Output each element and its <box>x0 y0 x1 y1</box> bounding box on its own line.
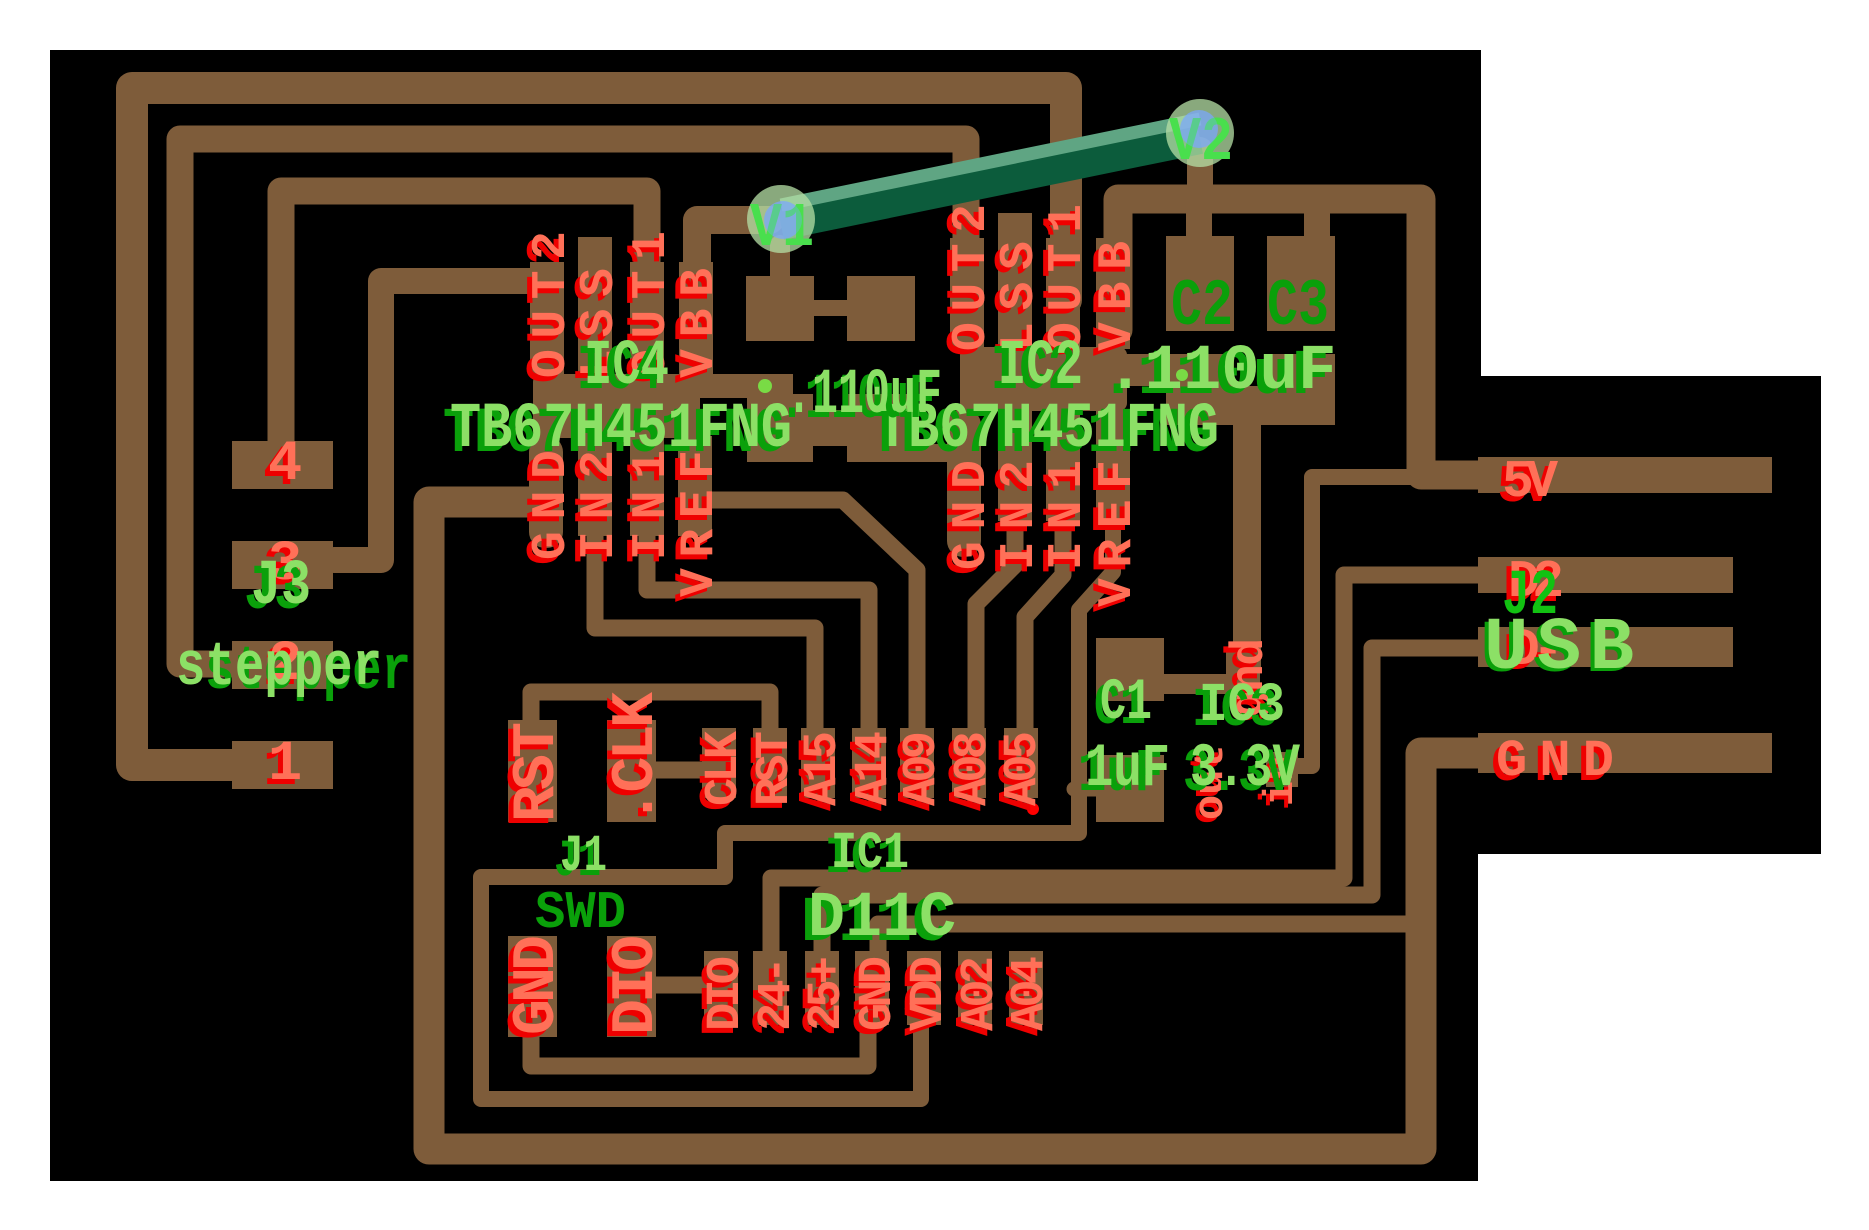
IC1 pad DIO <box>704 951 738 1025</box>
pad GND <box>1478 733 1772 773</box>
green origin dot IC4 <box>758 379 772 393</box>
svg-text:V1: V1 <box>750 193 814 264</box>
svg-text:RST: RST <box>504 722 572 822</box>
wire IC2 IN2 to IC1 A08 <box>976 520 1015 745</box>
connector J3 pad 1 <box>232 741 333 789</box>
via V2 <box>1166 99 1234 178</box>
svg-text:VBB: VBB <box>673 268 727 378</box>
wire V2 stub <box>1187 150 1213 199</box>
pin label IC2 LSS <box>988 246 1042 356</box>
IC2 strip to GND pad <box>900 444 960 462</box>
pad USB <box>1478 627 1733 667</box>
svg-text:4: 4 <box>268 433 302 497</box>
IC2 body <box>960 347 1127 411</box>
IC4 pad IN1 <box>630 436 664 536</box>
wire D2 pad to IC1 24- <box>771 575 1490 960</box>
IC2 link to C2 lower pad <box>1110 354 1168 386</box>
pin label IC1 25+ <box>796 961 849 1036</box>
connector J3 pad 3 <box>232 541 333 589</box>
pin label IC1 A14 <box>843 736 896 811</box>
label IC2 <box>991 331 1083 408</box>
svg-text:IC3: IC3 <box>1199 674 1285 737</box>
IC1 pad CLK <box>702 728 736 798</box>
pin label J1 RST <box>499 727 567 827</box>
svg-text:GND: GND <box>1496 732 1614 791</box>
label 1uF <box>1078 735 1170 809</box>
svg-text:1: 1 <box>268 733 302 797</box>
wire 3V3 net IC2 VREF to VDD <box>481 520 1113 1099</box>
pin label IC4 GND <box>520 455 574 565</box>
svg-text:SWD: SWD <box>535 883 626 943</box>
IC1 pad A14 <box>852 728 886 798</box>
pin label IC1 A05 <box>992 736 1045 811</box>
IC1 pad A09 <box>900 728 934 798</box>
capacitor C2 pad bottom <box>1166 354 1234 425</box>
pin label IC4 LSS <box>568 273 622 383</box>
connector J1 pad DIO <box>607 936 656 1037</box>
IC3 pin label in fragment <box>1253 760 1301 810</box>
svg-text:J1: J1 <box>560 827 607 886</box>
pin label IC1 A08 <box>942 736 995 811</box>
IC1 pad A05 <box>1004 728 1038 798</box>
wire USB pad to IC1 25+ <box>822 648 1490 960</box>
wire IC2 IN1 to IC1 A05 <box>1025 520 1063 745</box>
IC3 pin label out fragment <box>1183 748 1231 824</box>
J3 pad number 4 <box>263 433 302 502</box>
connector J1 pad CLK <box>607 720 656 822</box>
wire IC4 IN2 to IC1 A15 <box>595 520 815 745</box>
IC2 pad IN2 <box>998 409 1032 521</box>
svg-text:.CLK: .CLK <box>603 692 671 825</box>
capacitor C5 pad B <box>847 394 915 462</box>
pin label IC4 VBB <box>668 273 722 383</box>
pin label IC1 CLK <box>693 735 746 811</box>
svg-text:D11C: D11C <box>808 883 956 955</box>
pin label IC3 gnd <box>1219 643 1271 723</box>
svg-text:3.3V: 3.3V <box>1190 735 1300 804</box>
IC4 pad GND <box>529 436 563 548</box>
IC2 pad VREF <box>1096 409 1130 521</box>
capacitor C4 pad A <box>746 276 814 341</box>
IC1 pad 24- <box>753 951 787 1025</box>
wire C2 C3 lower pads to IC3 gnd <box>1233 420 1261 668</box>
IC4 pad OUT2 <box>530 262 564 376</box>
pin label IC4 OUT1 <box>620 236 674 383</box>
IC2 pad VBB <box>1096 238 1130 349</box>
wire GND main ring <box>429 502 1490 1149</box>
label TB67H451FNG IC4 <box>443 394 792 471</box>
IC1 pad 25+ <box>805 951 839 1025</box>
connector J3 pad 4 <box>232 441 333 489</box>
label J3 <box>244 551 311 628</box>
label 5V <box>1497 452 1558 517</box>
label J1 <box>554 827 607 891</box>
label D11C <box>801 883 956 960</box>
IC4 pad LSS <box>578 237 612 376</box>
wire J1 CLK link <box>650 762 719 779</box>
label TB67H451FNG IC2 <box>870 394 1219 471</box>
J3 pad number 2 <box>263 633 302 702</box>
svg-text:J3: J3 <box>251 551 311 623</box>
svg-text:GND: GND <box>504 935 572 1035</box>
via V1 <box>747 185 815 264</box>
svg-text:IC2: IC2 <box>998 331 1083 403</box>
pin label IC1 A02 <box>949 961 1002 1036</box>
label C1 <box>1094 671 1152 741</box>
wire V1 to C4 pad <box>770 245 790 285</box>
pin label IC1 A15 <box>792 736 845 811</box>
connector J3 pad 2 <box>232 641 333 689</box>
svg-text:.110uF: .110uF <box>786 360 942 432</box>
IC3 pad gnd <box>1226 650 1260 694</box>
svg-text:USB: USB <box>1484 607 1634 691</box>
IC1 pad A15 <box>801 728 835 798</box>
pin label IC1 DIO <box>695 961 748 1036</box>
pin label IC4 IN1 <box>620 455 674 565</box>
svg-text:V2: V2 <box>1169 107 1233 178</box>
wire J1 RST to IC1 RST <box>531 692 770 735</box>
capacitor C2 pad top <box>1166 236 1234 331</box>
pin label IC4 VREF <box>668 455 722 602</box>
label 3.3V <box>1183 735 1300 809</box>
svg-text:TB67H451FNG: TB67H451FNG <box>450 394 792 466</box>
capacitor C5 pad A <box>747 394 813 462</box>
svg-text:5V: 5V <box>1502 452 1558 512</box>
svg-text:A04: A04 <box>1004 956 1057 1031</box>
wire VBB rail V2 to 5V <box>1118 199 1490 475</box>
IC1 pad VDD <box>907 951 941 1025</box>
connector J1 pad GND <box>508 936 557 1037</box>
J3 pad number 3 <box>263 533 302 602</box>
svg-text:DIO: DIO <box>603 935 671 1035</box>
wire IC4 IN1 to IC1 A14 <box>647 520 869 745</box>
svg-text:C1: C1 <box>1100 671 1152 736</box>
pin label IC1 GND <box>847 961 900 1036</box>
airwire V1 to V2 <box>781 119 1200 225</box>
IC3 pad vin <box>1266 752 1298 787</box>
svg-text:IC1: IC1 <box>831 824 909 883</box>
label D- under USB <box>1503 620 1564 685</box>
IC4 link to C5 pad <box>698 374 793 398</box>
pin label J1 .CLK <box>598 697 666 830</box>
IC4 pad IN2 <box>578 436 612 536</box>
capacitor C3 pad top <box>1267 236 1335 331</box>
svg-text:1uF: 1uF <box>1085 735 1170 804</box>
pin label IC1 VDD <box>898 961 951 1036</box>
svg-text:A05: A05 <box>997 731 1050 806</box>
IC2 pad IN1 <box>1046 409 1080 521</box>
wire GND branch to IC1 GND <box>878 924 1421 960</box>
red dot near A05 <box>1027 803 1039 815</box>
pin label IC2 OUT1 <box>1036 209 1090 356</box>
pad D2 <box>1478 557 1733 593</box>
label USB <box>1480 607 1634 694</box>
C5 pads bridge <box>810 410 852 446</box>
IC1 pad RST <box>753 728 787 798</box>
svg-text:C3: C3 <box>1267 269 1329 344</box>
pin label IC2 VREF <box>1086 465 1140 612</box>
pin label J1 GND <box>499 940 567 1040</box>
wire T3 J3 pad4 to IC4 OUT1 <box>281 191 647 460</box>
svg-text:stepper: stepper <box>176 632 382 703</box>
capacitor C3 pad bottom <box>1267 354 1335 425</box>
pin label IC2 GND <box>940 465 994 575</box>
wire T2 J3 pad2 to IC2 OUT2 <box>180 139 966 664</box>
pin label IC1 RST <box>744 736 797 811</box>
wire C1 lower to 3V3 riser <box>1074 782 1100 797</box>
pin label J1 DIO <box>598 940 666 1040</box>
IC4 pad VBB <box>679 262 713 376</box>
pin label IC2 VBB <box>1086 246 1140 356</box>
wire T1 J3 pad1 to IC2 OUT1 <box>132 88 1066 765</box>
svg-text:.110uF: .110uF <box>1106 336 1336 408</box>
label GND right <box>1491 732 1614 796</box>
wire C2 stub <box>1186 201 1212 245</box>
wire 5V to IC3 vin <box>1284 477 1412 766</box>
wire T4 J3 pad3 to IC4 OUT2 <box>334 281 547 560</box>
pin label IC2 IN2 <box>988 465 1042 575</box>
IC2 pad OUT1 <box>1046 238 1080 349</box>
capacitor C1 pad bottom <box>1096 755 1164 822</box>
wire IC4 VREF to IC1 A09 <box>702 500 917 745</box>
wire VBB IC4 to V1 <box>697 220 770 370</box>
IC1 pad GND <box>855 951 889 1025</box>
connector J1 pad RST <box>508 720 557 822</box>
J3 pad number 1 <box>263 733 302 802</box>
label IC3 <box>1192 674 1285 742</box>
pin label IC2 IN1 <box>1036 465 1090 575</box>
wire J1 GND to IC1 GND <box>531 1020 868 1066</box>
C4 pads bridge <box>810 300 852 316</box>
wire C3 stub <box>1304 201 1330 245</box>
pin label IC1 24- <box>746 961 799 1036</box>
IC1 pad A04 <box>1009 951 1043 1025</box>
capacitor C4 pad B <box>847 276 915 341</box>
C2 C3 bottom bridge <box>1230 386 1272 425</box>
IC4 pad OUT1 <box>630 262 664 376</box>
label stepper <box>176 632 411 707</box>
IC1 pad A02 <box>958 951 992 1025</box>
IC2 pad OUT2 <box>950 238 984 349</box>
IC2 pad GND <box>947 409 981 557</box>
pin label IC4 OUT2 <box>520 236 574 383</box>
pin label IC1 A09 <box>891 736 944 811</box>
label IC4 <box>577 331 669 408</box>
wire J1 DIO link <box>650 977 721 994</box>
IC4 body <box>533 374 700 438</box>
pin label IC1 A04 <box>999 961 1052 1036</box>
pin label IC2 OUT2 <box>940 209 994 356</box>
svg-text:C2: C2 <box>1171 269 1233 344</box>
label .110uF right <box>1099 336 1336 413</box>
label .110uF left <box>779 360 942 437</box>
IC2 pad LSS <box>998 213 1032 349</box>
wire IC3 gnd to C1 upper <box>1160 674 1238 694</box>
IC1 pad A08 <box>952 728 986 798</box>
label D2 <box>1503 552 1564 617</box>
svg-text:IC4: IC4 <box>584 331 669 403</box>
pin label IC4 IN2 <box>568 455 622 565</box>
capacitor C1 pad top <box>1096 638 1164 701</box>
IC4 pad VREF <box>678 436 712 536</box>
svg-text:VBB: VBB <box>1091 241 1145 351</box>
pad 5V <box>1478 457 1772 493</box>
label IC1 <box>825 824 909 888</box>
green origin dot IC2 <box>1176 369 1188 381</box>
